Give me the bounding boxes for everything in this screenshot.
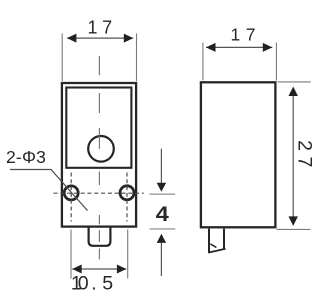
dimension 4: upper arrowhead pointing down xyxy=(157,183,166,192)
dimension 17 side: left arrowhead xyxy=(206,43,216,52)
dimension 17 front: right extension line xyxy=(136,34,138,82)
dimension 4: lower reference bar xyxy=(150,228,176,230)
hole callout leader line xyxy=(10,170,88,211)
side view tab latch diagonal xyxy=(210,244,216,248)
dimension 17 side: right arrowhead xyxy=(263,43,273,52)
side view body rectangle xyxy=(201,82,276,227)
dimension 10.5: right arrowhead xyxy=(117,265,127,274)
dimension 10.5: right extension line xyxy=(127,230,129,279)
dimension 10.5: dimension line xyxy=(72,268,126,270)
dimension 4: lower arrowhead pointing up xyxy=(157,234,166,243)
front view outer body rectangle xyxy=(62,83,136,227)
dimension 4: upper reference bar xyxy=(150,193,176,195)
side view tab right edge xyxy=(223,229,225,250)
vertical centerline front view xyxy=(98,56,100,260)
front view inner window rectangle xyxy=(66,88,131,168)
side view tab left edge xyxy=(208,229,210,253)
dimension 27: top arrowhead xyxy=(289,87,298,97)
dimension 27: bottom arrowhead xyxy=(289,216,298,226)
mounting hole right xyxy=(120,186,134,200)
dimension 17 side: right extension line xyxy=(275,43,277,81)
dimension 17 side: left extension line xyxy=(202,43,204,81)
svg-text:17: 17 xyxy=(231,25,256,45)
lens circle xyxy=(88,136,114,162)
svg-text:2-Φ3: 2-Φ3 xyxy=(6,147,46,167)
svg-text:27: 27 xyxy=(293,140,315,173)
hole left vertical dashed centerline xyxy=(70,173,72,222)
bottom connector tab front view xyxy=(89,228,111,246)
dimension 17 side: dimension line xyxy=(206,46,272,48)
dimension 10.5: left arrowhead xyxy=(72,265,82,274)
dimension 27: top extension line xyxy=(278,81,311,83)
dimension 27: dimension line xyxy=(292,90,294,220)
dimension 4: upper arrow line xyxy=(160,149,162,183)
dimension 4: lower arrow line xyxy=(160,243,162,276)
dimension 17 front: dimension line xyxy=(67,37,133,39)
side view tab slanted bottom edge xyxy=(208,249,225,253)
hole right vertical dashed centerline xyxy=(126,173,128,222)
svg-text:17: 17 xyxy=(88,18,113,38)
dimension 17 front: right arrowhead xyxy=(124,34,134,43)
dimension 10.5: left extension line xyxy=(70,230,72,279)
svg-text:4: 4 xyxy=(156,202,170,226)
dimension 27: bottom extension line xyxy=(277,228,311,230)
svg-text:10.5: 10.5 xyxy=(71,273,113,295)
hole axis horizontal dashed centerline xyxy=(54,192,144,194)
dimension 17 front: left arrowhead xyxy=(67,34,77,43)
dimension 17 front: left extension line xyxy=(61,34,63,82)
mounting hole left xyxy=(64,186,78,200)
